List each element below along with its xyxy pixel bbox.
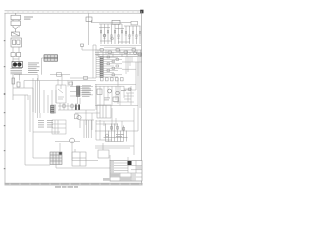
smps transformer T1 — [33, 78, 40, 113]
right cluster extra wires — [124, 86, 134, 105]
ic U2 pins — [70, 87, 93, 105]
part labels — [104, 90, 126, 100]
regulator ic U2 body — [77, 86, 80, 97]
transistor Q10 — [103, 34, 106, 37]
title block — [110, 161, 142, 182]
connector CN1 — [44, 55, 58, 61]
wire — [25, 164, 110, 168]
ic U1 right pin wires — [103, 57, 122, 77]
capacitor C1 — [11, 53, 21, 57]
fbt block — [97, 105, 111, 118]
wire — [13, 88, 33, 112]
capacitor C10 — [86, 17, 92, 22]
frame right border — [141, 11, 143, 185]
resistor R31 — [113, 97, 119, 102]
parts list text — [28, 63, 40, 73]
caption text — [55, 186, 78, 188]
capacitor C2 — [17, 82, 20, 87]
frame bottom ruler ticks — [10, 183, 140, 185]
resistor R12 — [75, 114, 79, 119]
jungle ic U1 outline — [93, 45, 100, 78]
gray strip left of title block — [103, 178, 110, 181]
fuse F1 — [12, 32, 20, 36]
capacitor C31 — [129, 88, 131, 91]
degauss posistor TH1 — [12, 62, 23, 68]
frame left ruler marks — [4, 40, 6, 169]
ac plug P1 — [13, 27, 18, 32]
opto coupler box — [56, 85, 66, 103]
wire — [122, 57, 142, 108]
mid connect wires — [75, 84, 100, 130]
pin components — [107, 56, 119, 76]
wire — [25, 95, 60, 165]
ic U3 body — [51, 106, 55, 114]
mid text table — [38, 120, 53, 128]
bottom cluster — [50, 152, 62, 165]
ac label text — [24, 17, 33, 20]
ic U2 labels — [82, 85, 91, 96]
opto internals — [58, 85, 64, 99]
crt board ladder wires — [99, 23, 141, 45]
wire — [13, 57, 19, 62]
bus wires center — [24, 75, 96, 81]
capacitor caps dark — [75, 105, 80, 111]
ac inlet terminal block — [11, 13, 21, 27]
ladder collect wires — [100, 46, 141, 48]
wire — [24, 81, 28, 101]
sub circuit box bottom — [72, 149, 86, 166]
bus hang capacitors — [101, 78, 124, 81]
resistor R1 — [12, 78, 15, 84]
wire — [89, 14, 92, 46]
ladder tick marks — [100, 33, 141, 39]
capacitor C20 — [131, 21, 138, 25]
secondary rect cluster — [44, 90, 56, 113]
bus junction circle — [134, 52, 137, 55]
ic U1 body — [100, 57, 103, 78]
resistor R20 — [112, 20, 120, 24]
frame left border — [4, 13, 6, 185]
transistor Q5 — [77, 115, 81, 119]
transistor Q2 — [116, 91, 120, 95]
capacitor C9 — [84, 76, 88, 79]
wire — [92, 22, 123, 24]
ladder resistors — [100, 30, 140, 37]
transistor Q11 — [111, 37, 114, 40]
transistor Q3 — [70, 138, 75, 143]
crt bus — [95, 50, 142, 57]
left feed wires — [58, 79, 72, 87]
vertical ic block — [52, 120, 66, 134]
bridge rectifier D1 — [11, 64, 23, 74]
wire — [13, 47, 19, 53]
bus components — [100, 49, 141, 56]
frame top border — [5, 11, 143, 13]
title block vertical feed — [110, 155, 128, 161]
wire — [55, 120, 112, 158]
frame corner mark — [140, 10, 143, 14]
resistor R30 — [97, 89, 102, 95]
capacitor C8 — [57, 73, 62, 77]
wire — [82, 46, 95, 50]
wire — [95, 85, 138, 106]
frame top ruler ticks — [8, 11, 138, 13]
wire — [13, 74, 20, 100]
drive transformer T2 — [80, 120, 94, 138]
wire — [95, 57, 138, 155]
right drop wires — [114, 57, 138, 104]
resistor R8 — [69, 82, 73, 85]
heatsink box — [98, 150, 109, 158]
frame bottom border — [5, 183, 143, 185]
wire — [72, 143, 103, 161]
capacitor C12 — [81, 44, 84, 46]
line filter block L1 — [11, 38, 22, 47]
transistor Q1 — [108, 89, 112, 93]
deflection cluster — [104, 124, 128, 142]
wire — [42, 58, 45, 75]
small text rows — [116, 134, 124, 137]
bus tick marks — [98, 50, 141, 57]
mid-right connect wires — [96, 118, 134, 131]
cluster parts under U2 — [58, 103, 95, 110]
wire — [14, 75, 38, 81]
